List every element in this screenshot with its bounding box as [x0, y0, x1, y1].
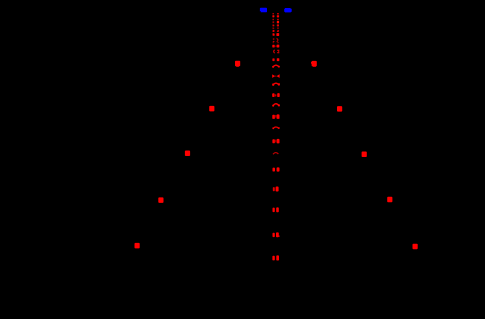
loop segment L4	[272, 127, 279, 129]
coupler C3	[274, 50, 280, 53]
crossover X4	[272, 139, 279, 144]
coupler C1	[273, 38, 279, 43]
junction pair J6	[273, 33, 280, 36]
crossover X1	[272, 74, 279, 78]
crossover X5	[273, 167, 280, 171]
node R3	[362, 152, 367, 158]
loop segment L3	[272, 104, 280, 107]
node L1	[235, 61, 240, 67]
junction pair J2	[273, 21, 280, 23]
node R2	[337, 106, 342, 112]
loop segment L1	[272, 65, 280, 68]
node L4	[158, 197, 163, 203]
crossover X2	[272, 93, 280, 97]
node L5	[135, 243, 140, 249]
crossover X6	[273, 187, 279, 192]
net label VDD-	[284, 8, 292, 12]
loop segment L5	[273, 153, 278, 155]
junction pair J5	[273, 30, 280, 32]
junction pair J4	[273, 28, 279, 30]
node L2	[209, 106, 214, 112]
crossover X8	[273, 232, 280, 237]
crossover X7	[273, 207, 279, 212]
loop segment L2	[272, 83, 280, 86]
node L3	[185, 151, 190, 157]
node R1	[311, 61, 317, 67]
crossover X9	[272, 255, 279, 260]
coupler C2	[272, 45, 279, 48]
wire: right dotted trunk	[277, 13, 279, 35]
node R4	[387, 197, 392, 203]
wire: left dotted trunk	[273, 13, 274, 35]
junction pair J3	[273, 24, 280, 26]
node R5	[413, 244, 418, 250]
net label VDD+	[260, 8, 267, 13]
junction pair J7	[272, 58, 279, 61]
crossover X3	[272, 114, 279, 119]
junction pair J1	[272, 15, 279, 17]
